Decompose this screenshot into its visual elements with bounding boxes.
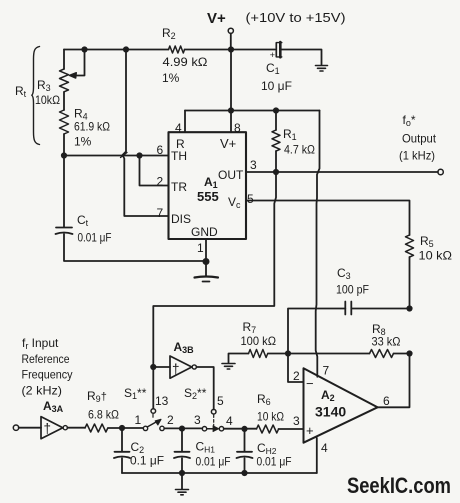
ground (bottom bus) xyxy=(181,473,183,489)
svg-text:0.01 μF: 0.01 μF xyxy=(196,455,231,469)
resistor R3 (pot body) xyxy=(60,69,69,92)
wire pot wiper xyxy=(73,50,85,76)
node C2 xyxy=(120,426,124,430)
wire R7 ground end xyxy=(229,354,249,363)
wire S1 to node 2 xyxy=(164,427,202,429)
wire bottom ground bus xyxy=(122,472,317,474)
wire A3A input terminal xyxy=(13,425,18,430)
node C3/R5 xyxy=(407,306,411,310)
svg-text:†: † xyxy=(172,362,180,377)
svg-text:1: 1 xyxy=(135,413,142,427)
resistor R5 xyxy=(406,235,414,257)
node CH1 xyxy=(180,426,184,430)
svg-text:0.01 μF: 0.01 μF xyxy=(78,231,112,245)
switch S2 blade (closed) xyxy=(207,428,214,430)
svg-text:1%: 1% xyxy=(74,135,92,149)
node CH2 xyxy=(242,427,246,431)
node OUT/R1 xyxy=(274,170,278,174)
node DIS line top xyxy=(124,47,128,51)
svg-text:V+: V+ xyxy=(207,10,226,27)
svg-text:8: 8 xyxy=(234,121,241,135)
svg-text:61.9 kΩ: 61.9 kΩ xyxy=(74,120,110,134)
capacitor C1 (10 uF electrolytic) xyxy=(276,42,282,57)
resistor R2 xyxy=(169,46,185,53)
op-amp A2 3140 xyxy=(304,368,378,442)
wire R9 to node 1 xyxy=(108,427,143,429)
wire DIS line (top rail to pin 7) with crossover jog xyxy=(123,50,169,217)
wire R1 bottom stub xyxy=(275,151,277,172)
capacitor C2 xyxy=(121,428,123,451)
svg-text:Reference: Reference xyxy=(22,352,70,366)
wire TR branch xyxy=(140,156,169,186)
svg-text:6.8 kΩ: 6.8 kΩ xyxy=(88,408,119,422)
S2 pin5 terminal xyxy=(211,409,216,414)
svg-text:7: 7 xyxy=(157,206,164,220)
svg-text:Output: Output xyxy=(402,132,437,146)
svg-text:4.7 kΩ: 4.7 kΩ xyxy=(284,143,315,157)
pin1 GND stub xyxy=(205,239,207,277)
capacitor CH2 xyxy=(244,429,246,451)
ground (555 pin 1) xyxy=(195,277,219,282)
output terminal fo xyxy=(438,169,443,174)
buffer A3A xyxy=(41,417,63,439)
resistor R9 xyxy=(85,424,108,432)
wire V+ down to pin 8 rail xyxy=(230,50,232,111)
wire R8 right xyxy=(394,353,410,355)
svg-text:4: 4 xyxy=(175,121,182,135)
svg-text:+: + xyxy=(306,423,314,438)
svg-text:5: 5 xyxy=(247,192,254,206)
svg-text:6: 6 xyxy=(383,394,390,408)
svg-text:3140: 3140 xyxy=(315,404,346,420)
wire V+ node to C1 xyxy=(231,49,275,51)
wire Vc line pin5 xyxy=(246,201,410,236)
wire top rail left (R3 top to R2) xyxy=(64,49,169,51)
svg-text:100 kΩ: 100 kΩ xyxy=(241,334,277,348)
node R8/output xyxy=(407,351,411,355)
svg-text:2: 2 xyxy=(167,413,174,427)
svg-text:10 μF: 10 μF xyxy=(261,79,292,93)
svg-text:fr Input: fr Input xyxy=(22,336,59,351)
buffer A3B input wire xyxy=(153,366,170,368)
node rail/V+ xyxy=(229,108,233,112)
S1 dashed link xyxy=(152,414,154,417)
svg-text:7: 7 xyxy=(323,364,330,378)
node V+ rail xyxy=(229,47,233,51)
buffer A3B xyxy=(170,356,192,378)
svg-text:2: 2 xyxy=(293,369,300,383)
node GND/Ct xyxy=(203,259,208,264)
wire A3A out to R9 xyxy=(67,427,85,429)
wire R7 to node xyxy=(268,353,288,355)
wire pin8 stub xyxy=(230,111,232,133)
svg-text:555: 555 xyxy=(197,189,219,204)
node summing (pin2/R7/R8/C3) xyxy=(286,351,290,355)
wire A3B out to S2 pin5 xyxy=(196,367,213,409)
svg-text:3: 3 xyxy=(194,413,201,427)
svg-text:TH: TH xyxy=(171,149,187,163)
wire R8 left xyxy=(288,353,370,355)
switch S1 blade xyxy=(147,422,157,428)
wire C3 right xyxy=(351,308,409,310)
wire C1 to ground xyxy=(282,50,322,65)
svg-text:+: + xyxy=(270,50,275,60)
ground (R7) xyxy=(222,364,235,370)
capacitor C3 100pF xyxy=(345,302,351,315)
S1 pin13 terminal xyxy=(151,409,156,414)
svg-text:5: 5 xyxy=(217,394,224,408)
resistor R6 xyxy=(257,425,279,433)
wire pin4 stub xyxy=(316,438,318,473)
svg-text:(1 kHz): (1 kHz) xyxy=(399,149,435,163)
S1 blade arrowhead xyxy=(155,419,161,425)
wiper arrowhead xyxy=(69,73,76,78)
svg-text:TR: TR xyxy=(171,180,187,194)
svg-text:0.1 μF: 0.1 μF xyxy=(130,454,164,468)
resistor R8 xyxy=(370,350,394,358)
svg-text:10kΩ: 10kΩ xyxy=(35,93,60,107)
V+ terminal xyxy=(228,28,233,33)
wire R3 top stub xyxy=(63,50,65,70)
svg-text:(2 kHz): (2 kHz) xyxy=(22,384,63,398)
wire OUT feedback down-left to A3B input xyxy=(153,172,276,409)
resistor R4 xyxy=(60,110,69,134)
svg-text:2: 2 xyxy=(157,175,164,189)
ground (top right) xyxy=(316,66,328,72)
svg-text:0.01 μF: 0.01 μF xyxy=(257,455,292,469)
svg-text:3: 3 xyxy=(250,158,257,172)
svg-text:GND: GND xyxy=(191,225,218,239)
S2 blade arrowhead xyxy=(213,426,219,432)
svg-text:1%: 1% xyxy=(162,71,180,85)
node R4/TH/Ct xyxy=(62,153,66,157)
crossover tick TH/DIS xyxy=(121,153,128,158)
svg-text:V+: V+ xyxy=(220,136,236,151)
switch S2 contacts xyxy=(202,427,206,431)
svg-text:DIS: DIS xyxy=(171,212,191,226)
wire pin4/pin8 V+ rail xyxy=(185,110,320,112)
node rail/R1 xyxy=(274,108,278,112)
switch S1 contacts xyxy=(143,426,147,430)
svg-text:1: 1 xyxy=(197,241,204,255)
svg-text:3: 3 xyxy=(293,414,300,428)
svg-text:SeekIC.com: SeekIC.com xyxy=(347,473,451,498)
svg-text:10 kΩ: 10 kΩ xyxy=(419,249,453,263)
capacitor Ct 0.01uF xyxy=(56,228,73,235)
wire OUT line pin3 to output terminal xyxy=(246,171,438,173)
node CH2 bottom xyxy=(242,471,246,475)
wire op-amp V+ line (rail down to pin 7) with crossover jogs xyxy=(316,111,320,377)
wire R1 top stub xyxy=(275,111,277,131)
wire Ct top xyxy=(63,156,65,228)
pin 4 stub xyxy=(184,111,186,133)
wire pin2 stub xyxy=(288,354,304,383)
wire R6 to pin 3 xyxy=(279,428,304,430)
node TR branch xyxy=(137,153,141,157)
svg-text:13: 13 xyxy=(155,394,169,408)
resistor R1 xyxy=(272,130,280,151)
wire Ct bottom to gnd node xyxy=(64,234,206,261)
wire R5 bottom xyxy=(409,257,411,309)
wire C3 left xyxy=(288,309,345,354)
IC A1 555 box xyxy=(169,132,247,239)
capacitor CH1 xyxy=(181,429,183,452)
wire R4 bottom xyxy=(63,134,65,156)
svg-text:Frequency: Frequency xyxy=(22,368,73,382)
svg-text:†: † xyxy=(44,421,52,436)
svg-text:4: 4 xyxy=(226,414,233,428)
svg-text:OUT: OUT xyxy=(218,168,244,182)
svg-text:−: − xyxy=(306,376,314,391)
bracket Rt xyxy=(32,47,40,145)
wire S2 to R6 xyxy=(224,428,257,430)
node A3B input xyxy=(151,365,155,369)
S2 dashed link xyxy=(213,415,215,426)
svg-text:6: 6 xyxy=(157,143,164,157)
resistor R7 xyxy=(249,350,268,358)
wire TH line xyxy=(64,155,169,157)
svg-text:10 kΩ: 10 kΩ xyxy=(257,410,284,424)
svg-text:4.99 kΩ: 4.99 kΩ xyxy=(163,55,208,69)
svg-text:100 pF: 100 pF xyxy=(336,283,369,297)
wire R2 to V+ node xyxy=(185,49,232,51)
wire output 6 xyxy=(378,354,410,408)
node wiper top xyxy=(82,47,86,51)
svg-text:(+10V to +15V): (+10V to +15V) xyxy=(246,11,346,25)
node CH1 bottom xyxy=(180,471,184,475)
svg-text:4: 4 xyxy=(321,441,328,455)
wire R3-R4 xyxy=(63,92,65,110)
svg-text:33 kΩ: 33 kΩ xyxy=(372,335,401,349)
